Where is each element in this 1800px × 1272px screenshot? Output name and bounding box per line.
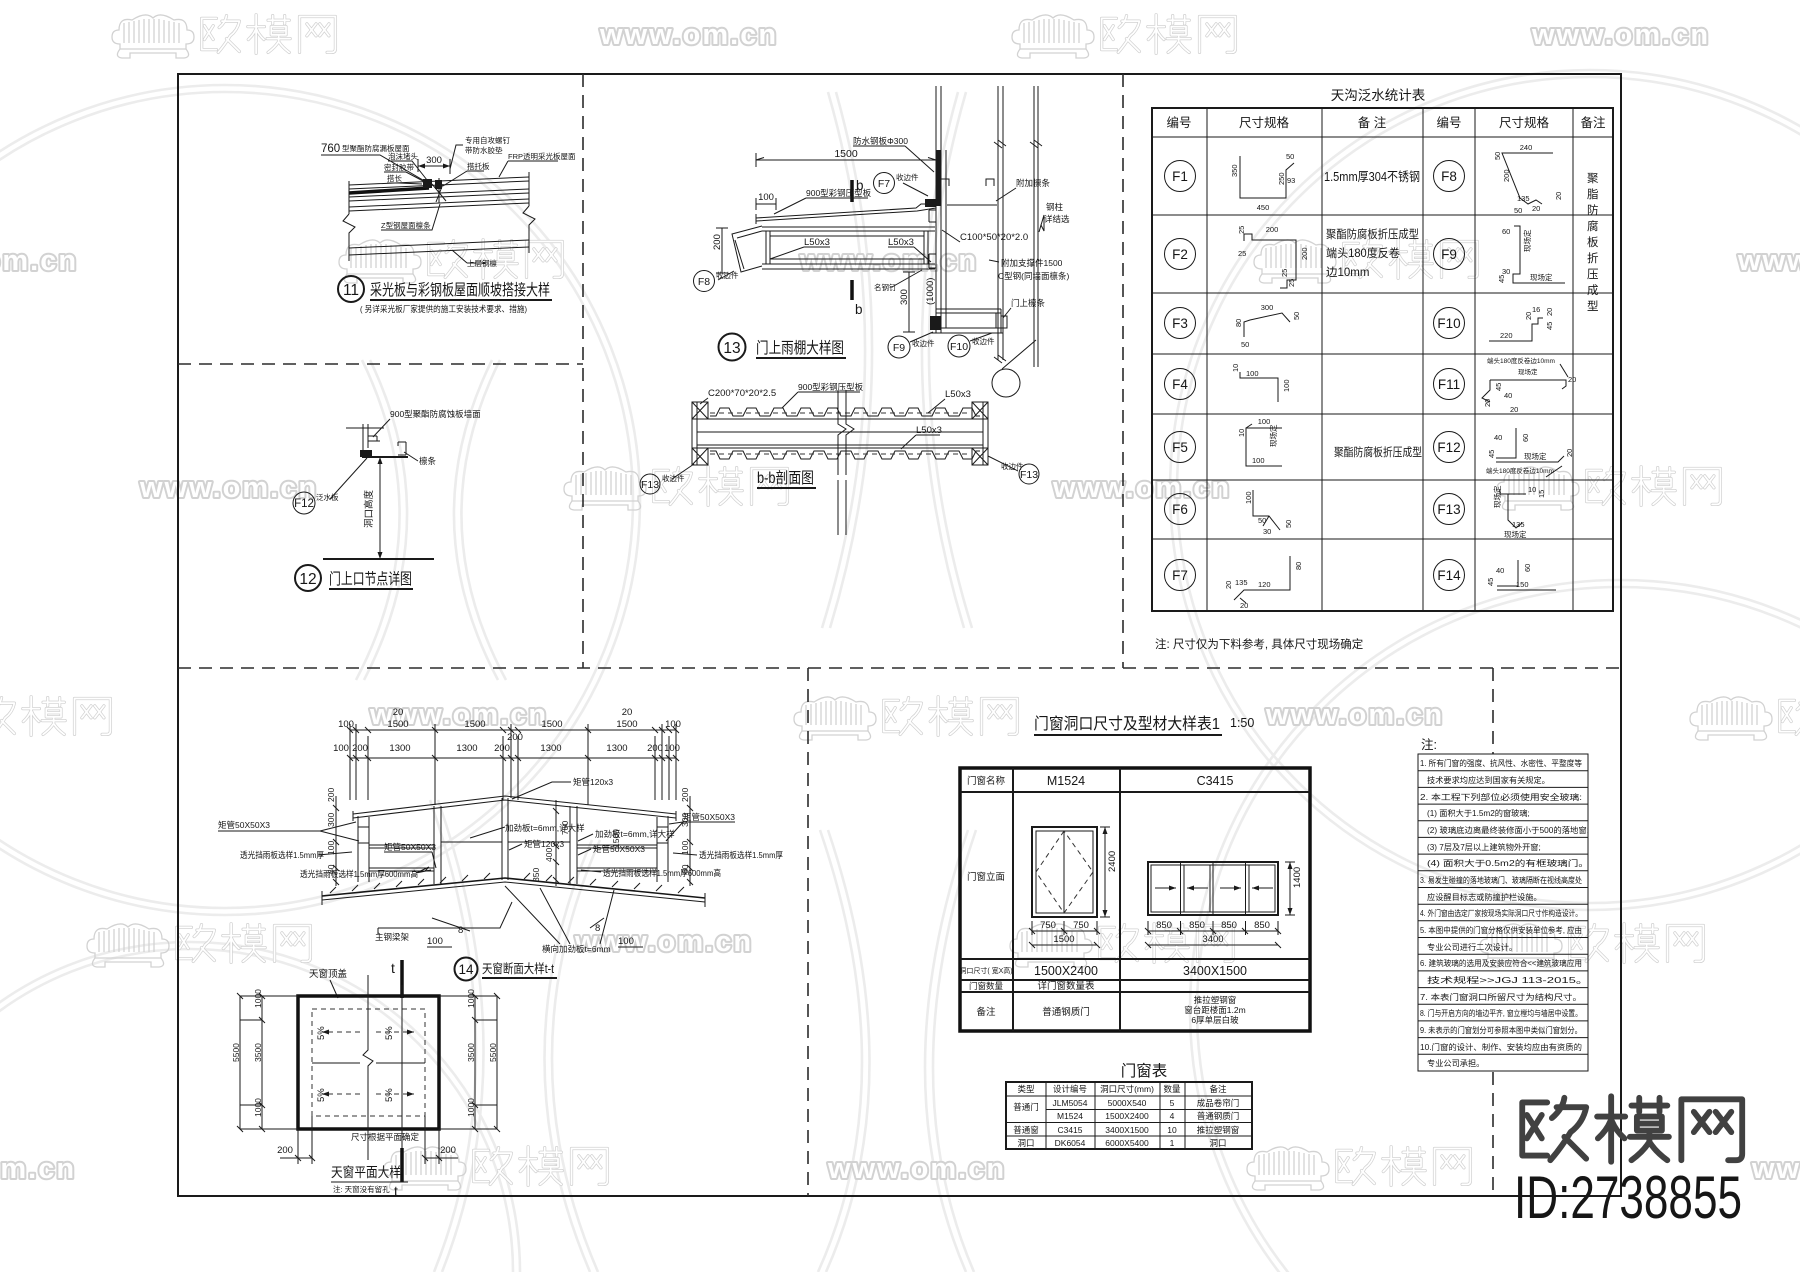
watermark big circle top-right (1170, 70, 1800, 910)
svg-text:应设醒目标志或防撞护栏设施。: 应设醒目标志或防撞护栏设施。 (1427, 892, 1542, 902)
F4 profile (1231, 364, 1291, 402)
F11 bubble (1434, 369, 1465, 400)
svg-text:推拉塑钢窗: 推拉塑钢窗 (1194, 995, 1237, 1005)
svg-text:220: 220 (1500, 331, 1513, 340)
svg-text:L50x3: L50x3 (888, 237, 914, 248)
window C3415 dims (1145, 862, 1303, 948)
plan left dim chain (231, 989, 298, 1132)
svg-text:40: 40 (1494, 433, 1502, 442)
svg-text:www.om.cn: www.om.cn (1265, 699, 1444, 731)
b-b bottom corrugated sheet (708, 448, 980, 459)
table1 row5 texts (976, 995, 1245, 1025)
watermark big curve X bottom-left (430, 800, 600, 1272)
svg-text:F13: F13 (641, 479, 659, 491)
svg-text:天窗断面大样t-t: 天窗断面大样t-t (482, 961, 554, 976)
svg-text:t: t (394, 1183, 398, 1199)
detail 12 purlin bracket 檩条 (398, 442, 437, 466)
svg-text:760: 760 (321, 143, 340, 155)
svg-text:5000X540: 5000X540 (1108, 1098, 1147, 1108)
svg-text:门窗表: 门窗表 (1121, 1062, 1168, 1080)
svg-text:750: 750 (1040, 920, 1056, 931)
detail 13 F8 bubble (694, 270, 739, 292)
svg-text:120: 120 (1258, 580, 1271, 589)
F13 profile (1492, 485, 1546, 539)
detail 13 dim 200 (712, 228, 728, 273)
svg-text:300: 300 (1261, 303, 1274, 312)
svg-text:6. 建筑玻璃的选用及安装应符合<<建筑玻璃应用: 6. 建筑玻璃的选用及安装应符合<<建筑玻璃应用 (1420, 958, 1582, 968)
detail 13 label 附加檩条 (996, 178, 1051, 201)
detail 11 label 密封胶带 搭长 (384, 162, 425, 184)
svg-text:1. 所有门窗的强度、抗风性、水密性、平整度等: 1. 所有门窗的强度、抗风性、水密性、平整度等 (1420, 758, 1582, 768)
detail 13 wall column lines (936, 86, 1042, 367)
plan center axis vertical (363, 975, 373, 1160)
svg-text:14: 14 (458, 962, 474, 977)
svg-text:F6: F6 (1172, 502, 1188, 517)
detail 13 F10 bubble (948, 333, 995, 357)
svg-text:40: 40 (1496, 566, 1504, 575)
svg-text:搭长: 搭长 (387, 173, 402, 183)
svg-text:100: 100 (427, 936, 443, 947)
svg-text:1500: 1500 (1053, 934, 1074, 945)
svg-text:横向加劲板t=6mm: 横向加劲板t=6mm (542, 944, 611, 954)
svg-text:1000: 1000 (466, 1098, 476, 1117)
svg-text:50: 50 (1292, 312, 1301, 320)
F3 profile (1234, 303, 1301, 349)
svg-text:类型: 类型 (1017, 1084, 1035, 1094)
svg-text:L50x3: L50x3 (804, 237, 830, 248)
b-b end caps right (972, 402, 988, 465)
watermark tile row 3 (139, 467, 1720, 510)
svg-text:收边件: 收边件 (1001, 461, 1024, 471)
svg-text:850: 850 (1156, 920, 1172, 931)
svg-text:C3415: C3415 (1197, 774, 1234, 788)
svg-text:www.om.cn: www.om.cn (1531, 19, 1710, 51)
svg-text:注: 尺寸仅为下料参考, 具体尺寸现场确定: 注: 尺寸仅为下料参考, 具体尺寸现场确定 (1155, 637, 1364, 651)
svg-text:设计编号: 设计编号 (1053, 1084, 1087, 1094)
b-b end caps left (692, 402, 708, 465)
svg-text:1.5mm厚304不锈钢: 1.5mm厚304不锈钢 (1324, 169, 1420, 184)
svg-text:900型聚酯防腐蚀板墙面: 900型聚酯防腐蚀板墙面 (390, 409, 481, 419)
detail 14 dim 8 100 right (590, 918, 643, 947)
detail 11 label 760型聚酯防腐漏板屋面 (321, 143, 428, 183)
detail 14 label 透光挡雨板选样1.5mm厚 right (673, 850, 783, 860)
schedule grid (1006, 1082, 1252, 1149)
detail 12 title text (329, 570, 413, 589)
detail 13 top brackets (941, 179, 997, 205)
F7 bubble (1165, 560, 1196, 591)
detail 14 label 透光挡雨板600mm高 right (581, 868, 721, 878)
svg-text:300: 300 (899, 289, 910, 305)
svg-text:20: 20 (1510, 405, 1518, 414)
svg-text:135: 135 (1235, 578, 1248, 587)
b-b label C200*70*20*2.5 (700, 388, 776, 404)
svg-text:60: 60 (1502, 227, 1510, 236)
svg-text:F12: F12 (294, 498, 314, 510)
svg-text:C100*50*20*2.0: C100*50*20*2.0 (960, 232, 1028, 243)
svg-text:400: 400 (544, 848, 554, 862)
svg-text:透光挡雨板选样1.5mm厚600mm高: 透光挡雨板选样1.5mm厚600mm高 (603, 868, 721, 878)
svg-text:5500: 5500 (231, 1043, 241, 1062)
svg-text:天窗顶盖: 天窗顶盖 (309, 968, 348, 980)
svg-text:1300: 1300 (606, 743, 627, 754)
plan center line horizontal (312, 1062, 425, 1064)
F14 bubble (1434, 560, 1465, 591)
svg-text:80: 80 (1294, 562, 1303, 570)
svg-text:45: 45 (1494, 383, 1503, 391)
svg-text:防水钢板Φ300: 防水钢板Φ300 (853, 136, 908, 146)
detail 14 title text (482, 961, 557, 978)
watermark tile row 2 (0, 240, 1800, 283)
svg-text:边10mm: 边10mm (1326, 266, 1369, 279)
svg-text:F13: F13 (1437, 502, 1460, 517)
svg-text:名钢钉: 名钢钉 (874, 282, 897, 292)
door M1524 dims (1029, 827, 1118, 948)
detail 12 vertical dim line 洞口高度 (363, 457, 383, 559)
svg-text:专业公司承担。: 专业公司承担。 (1427, 1058, 1484, 1068)
svg-text:8. 门与开启方向的墙边平齐, 窗立樘均与墙居中设置。: 8. 门与开启方向的墙边平齐, 窗立樘均与墙居中设置。 (1420, 1008, 1582, 1018)
table grid (1152, 108, 1613, 611)
svg-text:(1) 面积大于1.5m2的窗玻璃;: (1) 面积大于1.5m2的窗玻璃; (1427, 808, 1530, 818)
svg-text:( 另详采光板厂家提供的施工安装技术要求、措施): ( 另详采光板厂家提供的施工安装技术要求、措施) (360, 304, 527, 314)
b-b top corrugated sheet (708, 408, 980, 419)
svg-text:www.om.cn: www.om.cn (599, 19, 778, 51)
svg-text:1500: 1500 (611, 829, 621, 848)
svg-text:100: 100 (680, 841, 690, 855)
table header texts (1166, 115, 1606, 130)
dashed divider vertical bottom-right upper (1492, 668, 1494, 754)
svg-text:矩管50X50X3: 矩管50X50X3 (218, 820, 270, 830)
schedule header texts (1017, 1084, 1227, 1094)
F13 bubble (1434, 494, 1465, 525)
svg-text:2400: 2400 (1107, 851, 1118, 872)
detail 14 label 横向加劲板t=6mm (505, 886, 614, 954)
svg-text:750: 750 (1073, 920, 1089, 931)
svg-text:F2: F2 (1172, 247, 1188, 262)
svg-text:加劲板t=6mm,详大样: 加劲板t=6mm,详大样 (595, 829, 675, 839)
svg-text:天沟泛水统计表: 天沟泛水统计表 (1331, 88, 1426, 103)
svg-text:30: 30 (1502, 267, 1510, 276)
dashed divider horizontal left (178, 363, 583, 365)
F6 profile (1244, 490, 1293, 536)
svg-text:附加支撑件1500: 附加支撑件1500 (1001, 258, 1063, 268)
svg-text:3400: 3400 (1202, 934, 1223, 945)
svg-text:普通门: 普通门 (1013, 1102, 1039, 1112)
svg-text:(2) 玻璃底边离最终装修面小于500的落地窗;: (2) 玻璃底边离最终装修面小于500的落地窗; (1427, 825, 1589, 835)
svg-text:20: 20 (1565, 449, 1574, 457)
detail 13 F7 bubble (874, 172, 929, 196)
detail 14 left vertical dims (326, 788, 339, 886)
svg-text:备注: 备注 (976, 1006, 996, 1018)
svg-text:F10: F10 (950, 341, 968, 353)
svg-text:编号: 编号 (1166, 115, 1191, 130)
svg-text:现场定: 现场定 (1524, 451, 1547, 461)
svg-text:备 注: 备 注 (1358, 115, 1387, 130)
svg-text:1000: 1000 (253, 989, 263, 1008)
svg-text:矩管120x3: 矩管120x3 (573, 777, 613, 787)
svg-text:50: 50 (1514, 206, 1522, 215)
watermark tile row 1 (112, 15, 1710, 58)
detail 11 break marks (343, 206, 535, 252)
svg-text:尺寸根据平面确定: 尺寸根据平面确定 (351, 1132, 420, 1142)
detail 12 title bubble (295, 565, 321, 591)
svg-text:普通窗: 普通窗 (1013, 1125, 1039, 1135)
svg-text:50: 50 (1493, 152, 1502, 160)
svg-text:密封胶带: 密封胶带 (384, 162, 414, 172)
svg-text:型: 型 (1587, 299, 1599, 313)
svg-text:20: 20 (622, 707, 633, 718)
svg-text:门窗洞口尺寸及型材大样表1: 门窗洞口尺寸及型材大样表1 (1034, 715, 1220, 733)
svg-text:注: 天窗没有留孔: 注: 天窗没有留孔 (333, 1184, 390, 1194)
svg-text:透光挡雨板选样1.5mm厚: 透光挡雨板选样1.5mm厚 (240, 850, 324, 860)
window C3415 elevation (1148, 862, 1278, 915)
svg-text:450: 450 (1257, 203, 1270, 212)
svg-text:www.om.cn: www.om.cn (1052, 472, 1231, 504)
dashed divider horizontal full width (178, 667, 1621, 669)
detail 13 section mark b top (852, 178, 864, 202)
svg-text:4: 4 (1170, 1111, 1175, 1121)
detail 13 label L50x3 right (888, 237, 931, 262)
F2 remark 3 lines (1326, 227, 1419, 279)
schedule row 1 (1013, 1098, 1239, 1112)
svg-text:100: 100 (1244, 491, 1253, 504)
svg-text:门窗立面: 门窗立面 (967, 871, 1005, 883)
schedule row 4 (1017, 1138, 1226, 1148)
svg-text:20: 20 (1532, 204, 1540, 213)
svg-text:备注: 备注 (1580, 115, 1606, 130)
b-b label L50x3 top (928, 389, 971, 413)
svg-text:20: 20 (1240, 601, 1248, 610)
svg-text:135: 135 (1512, 520, 1525, 529)
svg-text:50: 50 (1284, 520, 1293, 528)
svg-text:成品卷帘门: 成品卷帘门 (1197, 1098, 1240, 1108)
detail 13 label 钢柱 详结选 (1039, 202, 1070, 232)
svg-text:1500: 1500 (464, 719, 485, 730)
svg-text:C200*70*20*2.5: C200*70*20*2.5 (708, 388, 776, 399)
svg-text:5%: 5% (316, 1026, 327, 1040)
detail 11 title bubble (338, 276, 364, 302)
dashed divider vertical bottom-left (807, 668, 809, 1196)
detail 14 label 矩管50X50X3 inner left (384, 842, 436, 868)
svg-text:L50x3: L50x3 (916, 425, 942, 436)
svg-text:1500: 1500 (834, 148, 858, 160)
sheet border frame (178, 74, 1621, 1196)
b-b title text (757, 469, 816, 488)
F2 profile (1237, 225, 1309, 288)
svg-text:200: 200 (277, 1145, 293, 1156)
svg-text:门上雨棚大样图: 门上雨棚大样图 (756, 339, 844, 357)
svg-text:3500: 3500 (253, 1043, 263, 1062)
detail 14 label 加劲板t=6mm 详大样 right (578, 829, 675, 841)
detail 11 label 专用自攻螺钉带防水胶垫 (450, 135, 510, 169)
detail 14 label 矩管50X50X3 center (578, 844, 645, 855)
detail 11 label 上层钢檩 (452, 250, 497, 268)
watermark tile row 4 (0, 697, 1800, 740)
plan bottom dims 200 (277, 1116, 458, 1164)
detail 13 wall brackets mid (929, 210, 936, 268)
svg-text:端头180度反卷边10mm: 端头180度反卷边10mm (1486, 466, 1554, 475)
svg-text:1500X2400: 1500X2400 (1105, 1111, 1149, 1121)
svg-text:洞口: 洞口 (1017, 1138, 1034, 1148)
detail 14 label 矩管50X50X3 far left (218, 820, 359, 841)
door M1524 elevation (1032, 827, 1097, 917)
watermark big curve lens mid-left (356, 360, 506, 680)
svg-text:C型钢(同墙面檩条): C型钢(同墙面檩条) (998, 271, 1069, 281)
F11 profile (1482, 356, 1576, 414)
svg-text:3500: 3500 (466, 1043, 476, 1062)
svg-text:F7: F7 (878, 178, 890, 190)
detail 14 curb walls (358, 816, 668, 882)
svg-text:12: 12 (299, 571, 316, 588)
detail 13 label 附加支撑件1500 C型钢 (989, 258, 1069, 281)
dashed divider vertical left-middle (582, 74, 584, 668)
detail 12 label 900型聚酯防腐蚀板墙面 (373, 409, 481, 437)
svg-text:200: 200 (440, 1145, 456, 1156)
svg-text:矩管50X50X3: 矩管50X50X3 (384, 842, 436, 852)
detail 13 label L50x3 left (770, 237, 830, 259)
svg-text:加劲板t=6mm,详大样: 加劲板t=6mm,详大样 (505, 823, 585, 833)
svg-text:50: 50 (1241, 340, 1249, 349)
svg-text:45: 45 (1487, 450, 1496, 458)
svg-text:45: 45 (1497, 275, 1506, 283)
notes text lines (1420, 758, 1589, 1068)
svg-text:尺寸规格: 尺寸规格 (1499, 115, 1550, 130)
svg-text:6厚单层白玻: 6厚单层白玻 (1191, 1015, 1239, 1025)
detail 11 label Z型钢屋面檩条 (381, 204, 440, 230)
svg-text:技术规程>>JGJ 113-2015。: 技术规程>>JGJ 113-2015。 (1427, 975, 1589, 985)
svg-text:www.: www. (1751, 1153, 1800, 1185)
detail 12 F12 bubble (293, 458, 367, 514)
svg-text:www.om.cn: www.om.cn (139, 472, 318, 504)
F2 bubble (1165, 239, 1196, 270)
plan outer square (298, 996, 439, 1129)
detail 14 side rails (369, 842, 657, 871)
svg-text:150: 150 (1516, 580, 1529, 589)
svg-text:350: 350 (1230, 164, 1239, 177)
svg-text:25: 25 (1237, 226, 1246, 234)
svg-text:(1000): (1000) (925, 278, 936, 305)
detail 11 label FRP透明采光板屋面 (499, 151, 576, 177)
plan section mark t bottom (394, 1148, 402, 1199)
svg-text:搭托板: 搭托板 (467, 161, 490, 171)
b-b label L50x3 bottom (901, 425, 942, 449)
svg-text:240: 240 (1520, 143, 1533, 152)
watermark big curve X bottom-center (818, 830, 976, 1272)
plan label 天窗顶盖 (309, 968, 348, 998)
svg-text:www.om.cn: www.om.cn (0, 245, 78, 277)
svg-text:端头180度反卷: 端头180度反卷 (1326, 246, 1400, 260)
svg-text:60: 60 (680, 864, 690, 874)
svg-text:3400X1500: 3400X1500 (1105, 1125, 1149, 1135)
schedule row 3 (1013, 1125, 1239, 1135)
F5 profile (1237, 417, 1282, 466)
plan right dim chain (439, 989, 500, 1132)
svg-text:www.om.cn: www.om.cn (0, 1153, 76, 1185)
svg-text:300: 300 (426, 155, 442, 166)
svg-text:现场定: 现场定 (1530, 272, 1553, 282)
svg-text:135: 135 (1517, 194, 1530, 203)
plan slope arrows and 5% labels (316, 1026, 414, 1102)
svg-text:门上檩条: 门上檩条 (1011, 298, 1046, 308)
detail 13 dim 1500 (756, 148, 936, 167)
svg-text:M1524: M1524 (1047, 774, 1085, 788)
svg-text:技术要求均应达到国家有关规定。: 技术要求均应达到国家有关规定。 (1427, 775, 1550, 785)
svg-text:窗台距楼面1.2m: 窗台距楼面1.2m (1184, 1005, 1245, 1015)
detail 14 right vertical dims (680, 788, 693, 886)
svg-text:F14: F14 (1437, 568, 1461, 583)
F14 profile (1486, 560, 1556, 590)
detail 13 label 名钢钉 (874, 270, 922, 292)
svg-text:45: 45 (1545, 322, 1554, 330)
b-b beam web lines (697, 432, 983, 445)
schedule row 2 (1057, 1111, 1239, 1121)
F8 profile (1493, 143, 1563, 215)
svg-text:20: 20 (1224, 581, 1233, 589)
svg-text:洞口: 洞口 (1209, 1138, 1226, 1148)
svg-text:100: 100 (1282, 379, 1291, 392)
svg-text:脂: 脂 (1587, 187, 1599, 201)
svg-text:750: 750 (560, 821, 570, 835)
svg-text:1:50: 1:50 (1230, 716, 1254, 730)
svg-text:(3) 7层及7层以上建筑物外开窗;: (3) 7层及7层以上建筑物外开窗; (1427, 842, 1541, 852)
svg-text:普通钢质门: 普通钢质门 (1042, 1006, 1090, 1018)
svg-text:5. 本图中提供的门窗分格仅供安装单位参考, 应由: 5. 本图中提供的门窗分格仅供安装单位参考, 应由 (1420, 925, 1582, 935)
detail 13 label 防水钢板Φ300 (853, 136, 934, 172)
svg-text:F11: F11 (1438, 377, 1460, 392)
detail 13 door head (930, 309, 1007, 363)
detail 13 dim 300 1000 (899, 272, 936, 332)
detail 13 gutter end cap (732, 226, 762, 272)
detail 11 lap joint (423, 178, 446, 203)
svg-text:现场定: 现场定 (1504, 529, 1527, 539)
svg-text:收边件: 收边件 (896, 172, 919, 182)
table1 row4 texts (969, 980, 1095, 992)
svg-text:5%: 5% (316, 1088, 327, 1102)
svg-text:详门窗数量表: 详门窗数量表 (1037, 980, 1095, 992)
detail 13 canopy beam (762, 227, 935, 269)
svg-text:20: 20 (1545, 308, 1554, 316)
svg-text:25: 25 (1287, 279, 1296, 287)
svg-text:1000: 1000 (253, 1098, 263, 1117)
svg-text:1500: 1500 (387, 719, 408, 730)
table1 row3 texts (959, 964, 1247, 978)
svg-text:洞口尺寸( 宽X高): 洞口尺寸( 宽X高) (959, 966, 1012, 975)
detail 11 roof panels (349, 172, 529, 214)
detail 13 label 门上檩条 (1003, 298, 1046, 318)
svg-text:60: 60 (326, 864, 336, 874)
watermark big circle top-left (0, 85, 640, 915)
svg-text:100: 100 (1246, 369, 1259, 378)
svg-text:200: 200 (680, 788, 690, 802)
svg-text:850: 850 (1189, 920, 1205, 931)
svg-text:F12: F12 (1437, 440, 1460, 455)
svg-text:50: 50 (1258, 516, 1266, 525)
svg-text:带防水胶垫: 带防水胶垫 (465, 145, 503, 155)
svg-text:2. 本工程下列部位必须使用安全玻璃:: 2. 本工程下列部位必须使用安全玻璃: (1420, 792, 1582, 802)
detail 13 label 900型彩钢压型板 top (774, 188, 872, 214)
svg-text:洞口尺寸(mm): 洞口尺寸(mm) (1100, 1084, 1154, 1094)
svg-text:端头180度反卷边10mm: 端头180度反卷边10mm (1487, 356, 1555, 365)
svg-text:F4: F4 (1172, 377, 1188, 392)
svg-text:F5: F5 (1172, 440, 1188, 455)
svg-text:备注: 备注 (1209, 1084, 1227, 1094)
svg-text:泡沫堵头: 泡沫堵头 (388, 151, 418, 161)
svg-text:檩条: 檩条 (419, 456, 437, 466)
detail 13 grid bubble (992, 340, 1036, 397)
detail 11 lower purlin panel (349, 234, 529, 261)
big dark logo 欧模网 (1522, 1096, 1742, 1162)
svg-text:300: 300 (680, 813, 690, 827)
svg-text:200: 200 (352, 743, 368, 754)
